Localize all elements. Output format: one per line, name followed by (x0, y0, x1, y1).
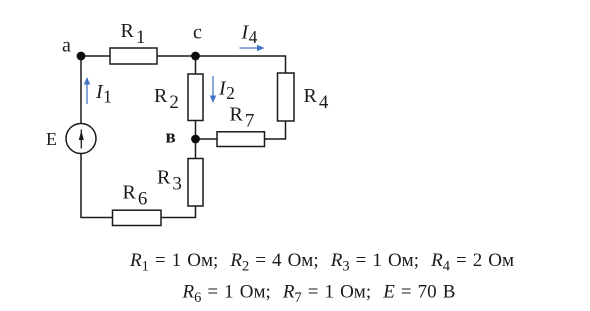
resistor R2 (188, 74, 203, 121)
wire a to R1 left (81, 55, 110, 57)
node v junction dot (191, 135, 200, 144)
resistor R1 (110, 48, 157, 64)
node label c (193, 22, 202, 44)
current arrow I4 (blue, right) (240, 45, 265, 51)
svg-text:R3: R3 (157, 167, 182, 195)
resistor R6 (113, 210, 162, 225)
svg-text:R1: R1 (121, 20, 146, 48)
source E internal arrow (79, 130, 84, 149)
wire R4 bottom to R7 right (265, 121, 286, 139)
value label R3 (157, 167, 182, 195)
current arrow I1 (blue, up) (84, 77, 90, 104)
svg-text:I4: I4 (241, 22, 258, 48)
source E circle (66, 124, 96, 154)
svg-text:R2: R2 (154, 85, 179, 113)
values text line 2 (182, 282, 456, 307)
wire R3 bottom to bottom rail (161, 206, 196, 218)
svg-text:R7: R7 (230, 104, 255, 132)
current arrow I2 (blue, down) (210, 76, 216, 103)
current label I1 (95, 81, 112, 107)
wire R6 left to bottom-left corner up to source E (81, 154, 113, 218)
svg-text:I2: I2 (218, 78, 235, 104)
resistor R4 (278, 73, 295, 121)
svg-text:R1 = 1 Ом; R2 = 4 Ом; R3 = 1: R1 = 1 Ом; R2 = 4 Ом; R3 = 1 Ом; R4 = 2 … (129, 250, 514, 275)
wire node v down to R3 top (195, 139, 197, 159)
value label R4 (304, 85, 329, 113)
current label I2 (218, 78, 235, 104)
node c junction dot (191, 52, 200, 61)
wire source E top to node a (80, 56, 82, 124)
wire R2 bottom to node v (195, 121, 197, 140)
node label a (62, 35, 71, 57)
resistor R3 (188, 159, 203, 207)
value label R1 (121, 20, 146, 48)
wire node c down to R2 top (195, 56, 197, 74)
current label I4 (241, 22, 258, 48)
svg-text:R4: R4 (304, 85, 329, 113)
wire node v to R7 left (196, 138, 218, 140)
svg-text:в: в (166, 127, 176, 148)
node a junction dot (77, 52, 86, 61)
svg-text:a: a (62, 35, 71, 57)
svg-text:E: E (46, 129, 57, 149)
svg-text:R6: R6 (123, 182, 148, 210)
value label R7 (230, 104, 255, 132)
svg-text:R6 = 1 Ом; R7 = 1 Ом; E = 70: R6 = 1 Ом; R7 = 1 Ом; E = 70 В (182, 282, 456, 307)
wire node c to top-right corner and down to R4 top (196, 56, 286, 73)
source label E (46, 129, 57, 149)
values text line 1 (129, 250, 514, 275)
value label R2 (154, 85, 179, 113)
svg-text:c: c (193, 22, 202, 44)
wire R1 right to node c (157, 55, 196, 57)
node label v (166, 127, 176, 148)
value label R6 (123, 182, 148, 210)
svg-text:I1: I1 (95, 81, 112, 107)
resistor R7 (217, 132, 265, 147)
